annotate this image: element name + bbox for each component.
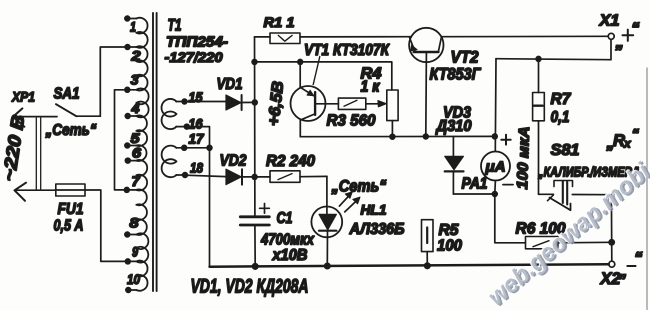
diode VD3 [445,137,495,195]
T1 secondary pin numbers [189,90,205,176]
T1 secondary tap stubs and dots [176,99,189,177]
node +6,5В rail [252,37,257,216]
svg-text:“: “ [634,249,643,268]
wire VT1 collector to VT2 base to meter node [300,134,497,139]
svg-text:“: “ [631,19,640,38]
resistor R2 [255,171,327,183]
cord lines [36,118,40,189]
diode VD1 [185,95,255,110]
resistor R7 [533,57,545,195]
svg-text:0,1: 0,1 [551,109,570,126]
label + (meter) [501,135,510,145]
T1 secondary winding 15-16 [162,99,177,129]
svg-text:РА1: РА1 [462,175,488,192]
svg-text:100: 100 [437,237,462,254]
svg-text:НL1: НL1 [361,202,387,217]
svg-text:VD1: VD1 [217,76,243,93]
svg-text:“: “ [632,126,640,143]
T1 core [153,13,157,291]
svg-text:9: 9 [132,244,138,259]
svg-text:8: 8 [130,215,140,230]
label „+" [615,19,641,52]
svg-text:R3 560: R3 560 [327,112,376,129]
svg-text:R2 240: R2 240 [266,153,315,170]
svg-text:1 к: 1 к [361,79,381,96]
svg-text:~220 В: ~220 В [0,113,28,182]
T1 secondary winding 17-18 [162,146,177,178]
switch SB1 [539,181,612,211]
svg-text:Т1: Т1 [168,17,182,35]
svg-text:VТ2: VТ2 [451,49,479,67]
potentiometer R4 [387,90,398,121]
transistor VT1 [291,57,326,137]
svg-text:2: 2 [130,48,141,63]
svg-text:С1: С1 [277,210,293,227]
diode VD2 [185,169,255,184]
svg-text:4: 4 [130,101,140,116]
svg-text:АЛ336Б: АЛ336Б [349,221,405,238]
label „Rx" [606,126,640,152]
wire +6,5 rail to R4 top [255,60,392,91]
label − (meter) [503,184,513,186]
svg-text:3: 3 [131,72,140,87]
svg-text:0,5 А: 0,5 А [54,218,84,235]
capacitor C1 [240,204,269,267]
wire jumper tap3 to tap7 [115,90,127,190]
svg-text:15: 15 [189,90,203,105]
svg-text:VТ1 КТ3107К: VТ1 КТ3107К [304,42,390,59]
wire SA1 to tap 2 [100,47,126,116]
svg-text:КТ853Г: КТ853Г [430,65,482,83]
svg-text:10: 10 [127,272,140,287]
svg-text:SА1: SА1 [54,86,80,103]
meter PA1 [481,59,510,197]
svg-text:х10В: х10В [272,247,308,264]
svg-text:+6,5В: +6,5В [266,80,288,127]
svg-text:ХР1: ХР1 [11,89,35,105]
resistor R3 [315,98,386,109]
svg-text:Д310: Д310 [435,118,472,135]
transistor VT2 [409,28,443,137]
svg-text:„Сеть“: „Сеть“ [331,177,388,195]
svg-text:R1 1: R1 1 [264,14,295,30]
terminal X1 [608,33,614,39]
svg-text:VD2: VD2 [220,153,247,170]
wire VT2 collector to X1 [442,35,609,37]
label „−" [618,249,643,281]
svg-text:5: 5 [131,131,141,146]
svg-text:Х1: Х1 [598,12,619,29]
fuse FU1 [56,184,85,196]
bottom rail wire [210,263,609,269]
svg-text:„: „ [618,262,628,281]
page right border [646,68,648,310]
wire X1 down to measure branch [496,39,611,59]
wire tap16/17 common to bottom rail [184,127,212,267]
svg-text:ТПП254-: ТПП254- [166,34,228,50]
resistor R6 [495,194,612,249]
svg-text:FU1: FU1 [58,201,84,218]
svg-text:„Сеть“: „Сеть“ [45,122,97,139]
svg-text:18: 18 [190,160,203,175]
switch SA1 [56,104,100,116]
watermark web.geowap.mobi [481,156,650,310]
svg-text:R7: R7 [551,91,572,108]
svg-text:VD1, VD2 КД208А: VD1, VD2 КД208А [191,276,309,298]
T1 primary tap stubs and junction dots [124,16,136,292]
svg-text:17: 17 [189,131,205,146]
wire R4 bottom to base line [391,121,393,137]
svg-text:4700мкх: 4700мкх [260,231,315,248]
plug XP1 prong 1 [13,108,57,126]
transformer T1 primary winding [136,18,148,291]
svg-text:Х2: Х2 [600,270,621,288]
svg-text:-127/220: -127/220 [165,49,223,65]
wire FU1 to tap 9 [85,190,127,261]
T1 primary pin numbers 1-10 [127,19,142,287]
svg-text:16: 16 [189,116,203,131]
terminal X2 [609,261,615,267]
plug XP1 prong 2 [15,183,56,201]
resistor R1 [255,33,412,44]
svg-text:μА: μА [484,160,505,176]
svg-text:6: 6 [132,145,142,160]
resistor R5 [422,220,434,266]
svg-text:S81: S81 [551,142,580,159]
LED HL1 [311,176,360,266]
svg-text:100 мкА: 100 мкА [514,126,533,190]
wire SB1 to X2 node [609,195,614,262]
svg-text:1: 1 [130,19,136,34]
